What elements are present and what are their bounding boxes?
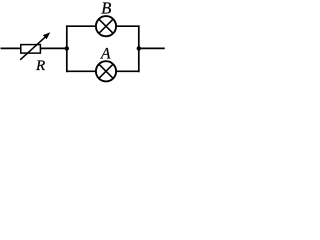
wire right stub: [139, 47, 165, 49]
resistor R (rheostat body): [21, 45, 41, 54]
svg-text:A: A: [100, 46, 111, 63]
node right junction: [137, 46, 141, 50]
resistor R arrow: [20, 32, 50, 60]
node left junction: [65, 46, 69, 50]
wire from rheostat to left junction: [40, 47, 66, 49]
wire left vertical: [66, 25, 68, 72]
wire bottom branch: [66, 70, 140, 72]
svg-text:R: R: [35, 58, 45, 74]
svg-text:B: B: [101, 0, 111, 17]
wire left lead into rheostat: [1, 47, 22, 49]
wire top branch: [66, 25, 140, 27]
wire right vertical: [138, 25, 140, 72]
lamp A: [96, 61, 116, 81]
lamp B: [96, 16, 116, 36]
